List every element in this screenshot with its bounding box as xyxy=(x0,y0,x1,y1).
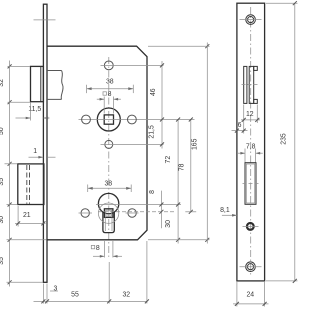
latch bolt front xyxy=(249,66,254,103)
cylinder screw hole xyxy=(247,223,254,230)
svg-text:24: 24 xyxy=(246,292,254,299)
svg-text:8: 8 xyxy=(149,190,156,194)
cylinder circles centerline xyxy=(79,212,93,214)
faceplate front view xyxy=(237,3,265,281)
centerline vertical faceplate view xyxy=(250,7,252,276)
follower square xyxy=(104,115,113,124)
extension lines left xyxy=(8,65,31,67)
case bottom extension xyxy=(148,239,210,241)
svg-text:38: 38 xyxy=(106,78,114,85)
bottom dimensions 3 55 32 xyxy=(34,241,149,304)
cylinder stem inner lines xyxy=(104,217,106,231)
svg-text:165: 165 xyxy=(191,138,198,150)
euro cylinder bold profile xyxy=(98,193,118,213)
bottom hole xyxy=(105,140,113,148)
svg-text:78: 78 xyxy=(178,163,185,171)
cylinder thin circle xyxy=(98,203,118,223)
top hole xyxy=(104,61,113,70)
svg-text:8: 8 xyxy=(108,91,112,98)
svg-text:55: 55 xyxy=(71,292,79,299)
bottom hole centerline xyxy=(101,143,164,145)
faceplate side view xyxy=(43,4,47,282)
middle column: 46 and 21.5 chain line xyxy=(160,61,164,149)
svg-text:46: 46 xyxy=(150,88,157,96)
svg-text:8,1: 8,1 xyxy=(220,207,230,214)
dimension 11.5 xyxy=(16,103,50,121)
centerline vertical main view xyxy=(108,57,110,258)
dimension square 8 bottom xyxy=(91,241,122,258)
dimension 8 middle xyxy=(159,191,163,229)
latch bolt side view xyxy=(31,66,44,101)
follower left circle xyxy=(82,115,91,124)
dimension 7.8 xyxy=(238,144,263,163)
deadbolt opening front xyxy=(245,163,256,205)
dimension square 8 top xyxy=(97,91,121,113)
dimension chain 72 and 30 xyxy=(176,118,180,244)
latch opening left slot xyxy=(244,66,247,103)
top hole centerline xyxy=(101,64,164,66)
svg-text:7,8: 7,8 xyxy=(246,144,256,151)
dimension 165 xyxy=(205,43,209,244)
svg-text:72: 72 xyxy=(165,156,172,164)
svg-text:235: 235 xyxy=(280,133,287,145)
svg-text:21: 21 xyxy=(23,212,31,219)
follower circle xyxy=(97,108,120,131)
svg-text:30: 30 xyxy=(0,216,5,224)
svg-text:12: 12 xyxy=(246,111,254,118)
latch tab bottom xyxy=(254,99,258,103)
dimension 1 faceplate xyxy=(29,148,56,159)
cylinder square xyxy=(104,209,113,218)
dimension 78 xyxy=(189,118,193,214)
dimension 21 xyxy=(15,206,46,227)
top screw hole xyxy=(246,15,256,25)
deadbolt side view xyxy=(18,164,44,205)
dimension 38 bottom xyxy=(88,181,132,192)
svg-text:35: 35 xyxy=(0,178,5,186)
cylinder dashed line 8.1 axis xyxy=(98,211,174,213)
deadbolt opening centerline xyxy=(243,182,259,184)
svg-text:35: 35 xyxy=(0,257,5,265)
latch opening centerline xyxy=(242,84,260,86)
screw-hole level tick on faceplate xyxy=(34,19,56,21)
latch tail xyxy=(47,71,63,100)
cylinder left circle xyxy=(81,209,89,217)
svg-text:6: 6 xyxy=(238,122,242,129)
svg-text:8: 8 xyxy=(96,245,100,252)
dimension 24 xyxy=(233,282,269,307)
svg-text:21,5: 21,5 xyxy=(148,125,155,139)
lock case outline xyxy=(47,46,147,240)
latch tab top xyxy=(254,66,258,70)
svg-text:50: 50 xyxy=(0,127,5,135)
svg-text:38: 38 xyxy=(104,181,112,188)
svg-text:32: 32 xyxy=(122,292,130,299)
dimension 6 xyxy=(232,122,248,134)
follower centerline horizontal xyxy=(79,119,195,121)
follower right circle xyxy=(127,115,136,124)
dimension 235 xyxy=(266,1,298,283)
svg-text:32: 32 xyxy=(0,79,5,87)
bottom screw hole xyxy=(246,262,256,272)
cylinder right circle xyxy=(128,209,136,217)
cylinder solid centerline xyxy=(96,204,181,206)
dimension 12 xyxy=(241,105,260,124)
dimension 38 top xyxy=(87,78,134,93)
svg-text:30: 30 xyxy=(165,220,172,228)
left chain dimension line xyxy=(8,61,12,287)
case top extension xyxy=(148,45,210,47)
svg-text:1: 1 xyxy=(33,148,37,155)
dimension 8.1 xyxy=(220,207,237,217)
